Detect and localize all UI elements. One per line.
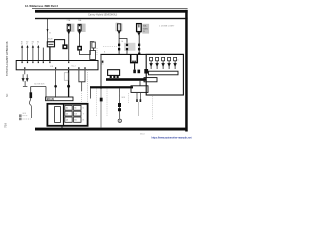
IC block with pins: [108, 70, 120, 76]
svg-text:G: G: [119, 120, 121, 123]
bus line top of right boxes: [100, 53, 183, 55]
teeth inside U: [132, 61, 133, 63]
table stub down: [61, 126, 63, 128]
dashed links to wire: [23, 115, 28, 117]
pin ticks inside J/B bottom: [24, 67, 85, 69]
table divider: [63, 104, 65, 126]
S1 hook: [29, 98, 31, 118]
holder pins col1: [118, 44, 120, 51]
fuse F1: [67, 24, 70, 31]
connector table box: [47, 104, 87, 126]
relay fuse box1: [47, 42, 54, 47]
wire w4 faint: [87, 70, 89, 103]
diode D5: [174, 57, 177, 69]
connector blob on ground wire: [118, 103, 121, 107]
dashed wire g4: [127, 93, 129, 104]
shield U symbol: [131, 55, 138, 63]
wire F2 down: [79, 31, 81, 46]
right page border: [185, 10, 188, 132]
inline connector pair: [22, 74, 28, 86]
fuse F3: [117, 24, 120, 31]
fuse F2 gray pad: [82, 24, 86, 32]
diamond node: [102, 61, 104, 63]
faint wire down: [138, 102, 140, 116]
diode D2: [156, 57, 159, 69]
tee split wire: [119, 39, 127, 55]
junction dot w2: [54, 85, 57, 88]
wire box3 to rect4: [80, 42, 94, 55]
fuse F2: [78, 24, 81, 31]
gray pad holder row: [124, 43, 135, 51]
ground bus left drop: [90, 88, 92, 98]
dashed link: [96, 48, 98, 56]
dashed wire g1: [96, 88, 98, 117]
header thin rule 2: [35, 18, 188, 19]
label rect on w2/w3: [64, 73, 68, 80]
connector rect B2: [131, 86, 148, 93]
wire C6 down: [81, 82, 83, 91]
wire below J/B w1: [24, 70, 26, 74]
ground bus thick bar: [90, 86, 133, 88]
svg-text:12. Wilderness 4WD Part 2: 12. Wilderness 4WD Part 2: [25, 4, 58, 8]
wire w2 from J/B: [55, 70, 57, 97]
relay fuse inner line: [48, 43, 53, 45]
svg-text:b1: b1: [102, 64, 104, 66]
junction blob on left edge wire: [100, 98, 103, 102]
svg-text:MAIN: MAIN: [143, 27, 149, 30]
connector box3 on F2 wire: [77, 46, 82, 51]
svg-text:RELAY: RELAY: [47, 38, 54, 41]
connector black box right: [144, 69, 148, 74]
down arrow on relay feed: [47, 29, 49, 32]
wire relay down: [49, 47, 51, 61]
fuse F1 gray pad: [71, 24, 75, 32]
svg-text:J/B: J/B: [50, 66, 54, 68]
relay feed wire from header: [47, 19, 49, 42]
wire bar to rect B2: [139, 81, 141, 86]
svg-text:GLOVE BOX: GLOVE BOX: [34, 84, 45, 86]
junction blob at bus: [138, 53, 140, 55]
relay contacts K1: [133, 70, 136, 74]
header thick bar: [35, 10, 188, 13]
ground point circle: [118, 119, 121, 122]
labels above arrows: [21, 41, 39, 45]
svg-text:TOYOTA CAMRY HYBRID 06: TOYOTA CAMRY HYBRID 06: [5, 41, 9, 76]
svg-text:SC: SC: [6, 93, 9, 97]
svg-text:E6 (A): E6 (A): [47, 97, 55, 101]
wire arrow A1: [22, 47, 38, 60]
svg-text:b: b: [178, 59, 179, 61]
small rect R5 on junction box top: [90, 51, 96, 60]
box A left edge wire to bottom: [100, 54, 102, 89]
fuse F4 label lines: [143, 25, 149, 34]
long bar inside box B: [149, 71, 179, 75]
pin ticks inside J/B top: [22, 61, 70, 63]
dashed wire g2: [106, 88, 108, 117]
arrowheads A1-A4: [21, 45, 23, 48]
bottom thick bar: [35, 128, 187, 131]
wire F1 down: [68, 31, 70, 61]
small bar inside box B: [144, 78, 157, 82]
U bracket C6: [79, 70, 85, 82]
connector box2: [62, 44, 67, 49]
table cells: [65, 105, 81, 122]
wire U down to contacts: [134, 63, 136, 69]
diode D4: [168, 57, 171, 69]
right box B (rear lights): [146, 54, 183, 95]
wire to ground G: [119, 88, 121, 119]
wires from rect B2 down: [136, 93, 138, 99]
wire rect4 down: [93, 48, 95, 51]
holder pins col3: [138, 44, 140, 51]
arrow on F2 wire: [78, 31, 81, 34]
wire F4 down: [138, 33, 140, 54]
gray boxes bottom left: [19, 114, 22, 117]
svg-text:https://www.automotive-manuals: https://www.automotive-manuals.net: [152, 135, 192, 139]
wire F3 down: [118, 31, 120, 55]
pin blobs: [136, 99, 138, 102]
arrow on F1 wire: [67, 31, 70, 34]
table inner tall cell: [55, 107, 61, 123]
svg-text:1 DOME LIGHT: 1 DOME LIGHT: [159, 26, 175, 28]
wire S1 horizontal: [31, 86, 46, 88]
svg-text:759: 759: [4, 123, 8, 128]
svg-text:Mond: Mond: [140, 134, 145, 136]
svg-text:L: L: [37, 44, 38, 46]
small rect R4: [92, 42, 95, 48]
fuse F4 (bold): [137, 24, 142, 32]
wire relay up-over: [55, 40, 65, 45]
cell text marks: [66, 108, 85, 122]
connector table header: [46, 97, 73, 101]
thick bar under IC: [106, 78, 147, 81]
connector symbol S1 wire: [30, 87, 32, 93]
S1 blob: [30, 92, 33, 98]
svg-text:Camry Hybrid (EM00H0U): Camry Hybrid (EM00H0U): [88, 13, 117, 16]
junction box (long): [16, 61, 98, 70]
header thin rule: [32, 7, 188, 10]
holder pins col2: [126, 44, 128, 51]
junction dot w3: [67, 85, 70, 88]
diode D1: [150, 57, 153, 69]
diode D3: [162, 57, 165, 69]
dashed gray link line: [103, 46, 117, 48]
fuse F4 label pad: [142, 24, 149, 34]
wire no-arrow into J/B: [42, 48, 44, 61]
wire w3 from J/B (thick): [68, 70, 70, 97]
arrow on F3 wire: [118, 31, 121, 34]
dashed wire g3: [152, 96, 154, 120]
fuse F3 gray pad: [115, 23, 123, 31]
